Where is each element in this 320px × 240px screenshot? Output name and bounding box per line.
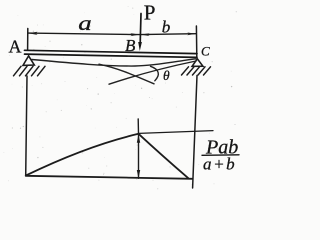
load P line [139,14,142,44]
left vertical line to moment diagram [26,76,27,176]
extension line left (above support A) [27,29,29,51]
beam bottom edge [25,54,198,57]
angle theta arc [151,66,159,81]
vertical stub above peak [137,119,139,134]
support A triangle [23,56,34,66]
support C triangle [192,59,203,67]
support C hatching [182,67,211,75]
tangent at C stroke [109,61,196,84]
ordinate arrow up [137,134,140,143]
svg-text:C: C [201,44,210,59]
dim arrow right (points right) [187,33,196,36]
dim arrow left (points left) [28,32,38,35]
svg-text:a+b: a+b [203,154,236,173]
fraction bar [202,154,239,157]
moment diagram left slope [26,134,138,176]
svg-text:θ: θ [163,68,170,83]
right vertical line to moment diagram [193,76,197,189]
beam top edge [25,50,198,53]
tangent at A stroke [99,64,154,84]
ordinate arrow down [137,170,140,179]
load P arrowhead [138,42,142,51]
dim arrow at P line, left side (points right) [131,33,140,36]
dim arrow at P line, right side (points left) [141,33,150,36]
extension line right (above support C) [195,26,197,57]
svg-text:A: A [9,37,22,57]
moment diagram right slope [139,134,189,178]
deflection curve [32,59,196,66]
peak ordinate double-arrow line [138,135,140,179]
support A hatching [14,66,46,76]
svg-text:P: P [144,1,156,25]
leader line from peak [139,131,213,134]
svg-text:B: B [125,36,136,55]
moment diagram baseline [26,176,193,179]
paper background [0,0,245,193]
svg-text:b: b [162,17,171,36]
dimension line a+b [28,33,197,35]
